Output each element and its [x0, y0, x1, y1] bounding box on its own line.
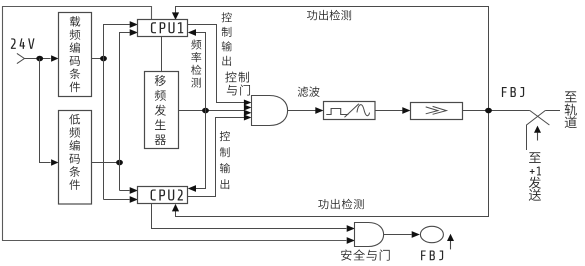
label FBJ (bottom): [421, 251, 443, 261]
box amplifier: [411, 103, 463, 120]
wire node B rail to CPU1 input 2 and CPU2 input 1: [120, 29, 138, 194]
box 移频发生器: [145, 72, 179, 149]
wire 控制输出 CPU1 to AND gate input 1: [188, 25, 252, 106]
label 安全与门: [341, 249, 390, 260]
label FBJ (top): [502, 87, 524, 97]
wire 功出检测 bottom feedback: FBJ junction down and left into CPU2 bottom: [172, 111, 489, 217]
and-gate 控制与门: [252, 96, 288, 126]
wire amplifier output to FBJ contact: [463, 110, 530, 112]
wire CPU2 bottom to safety gate input 1: [152, 204, 355, 232]
wire safety gate output to FBJ relay: [384, 231, 420, 238]
label 滤波: [298, 86, 320, 97]
box 滤波 square-to-sine converter: [324, 102, 376, 120]
label 功出检测 (top): [307, 10, 351, 20]
junction node on 24V rail: [36, 56, 43, 62]
label 功出检测 (bottom): [318, 199, 363, 209]
wire 低频编码条件 output to node B: [92, 162, 120, 164]
label 频率检测 (vertical): [191, 39, 201, 87]
node C junction dot: [202, 108, 209, 114]
label 至+1发送 (vertical): [529, 152, 541, 201]
direction arrow up from +1 transmitter: [534, 126, 541, 141]
contact FBJ crossover to track: [527, 111, 561, 151]
box 载频编码条件: [59, 13, 92, 97]
box CPU1: [138, 20, 188, 37]
node B junction dot: [116, 160, 123, 166]
terminal 24V input chevron: [17, 53, 25, 63]
wire 频率检测: node C up into CPU1 right, down into CPU2 right: [188, 29, 206, 192]
wire 24V rail to 载频编码条件: [24, 55, 58, 61]
wire 24V rail down to 低频编码条件: [40, 59, 59, 166]
label 控制输出 (upper, vertical): [222, 12, 232, 66]
and-gate 安全与门: [355, 223, 384, 247]
direction arrow up beside FBJ relay: [447, 234, 454, 250]
node A junction dot: [100, 56, 107, 62]
label 控制输出 (lower, vertical): [220, 131, 230, 189]
wire CPU1 to 移频发生器: [161, 37, 163, 72]
icon square wave: [326, 109, 348, 115]
wire 载频编码条件 output to node A: [92, 58, 104, 60]
node FBJ junction dot: [485, 108, 492, 114]
AND gate input arrowheads 2 and 3: [244, 105, 252, 116]
wire 功出检测 top feedback: FBJ junction up and left into CPU1 top: [172, 7, 489, 111]
icon slash divider: [345, 104, 359, 117]
wire 控制输出 CPU2 to AND gate input 4: [188, 115, 252, 197]
label 24V: [11, 38, 35, 49]
icon amplifier double chevron: [426, 106, 447, 114]
label 至轨道 (vertical): [565, 91, 577, 128]
relay coil FBJ oval: [420, 226, 443, 242]
wire 滤波 to amplifier: [375, 107, 411, 114]
wire 移频发生器 output to AND gate input: [179, 110, 245, 112]
icon sine wave: [357, 105, 370, 116]
box 低频编码条件: [59, 111, 92, 205]
wire AND gate output to 滤波 box: [288, 107, 324, 114]
box CPU2: [138, 187, 188, 204]
label 控制与门: [225, 72, 250, 96]
wire big feedback loop: CPU1 top - left border - bottom - to safety gate input 2: [3, 7, 355, 244]
wire node A rail to CPU1 input 1 and CPU2 input 2: [104, 21, 138, 203]
